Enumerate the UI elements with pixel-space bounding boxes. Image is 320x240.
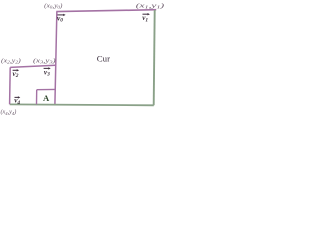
wire: A-box left edge bbox=[36, 90, 38, 105]
vector v3 arrow bar bbox=[44, 67, 49, 69]
svg-text:v3: v3 bbox=[44, 68, 50, 77]
wire: left vertical edge from (x0,y0) down bbox=[55, 12, 57, 106]
vector v1 arrow bar bbox=[143, 13, 148, 15]
wire: right vertical edge from (x1,y1) down bbox=[154, 10, 155, 105]
wire: small left vertical edge (x2,y2)-(x4,y4) bbox=[9, 67, 12, 104]
wire: bottom edge bbox=[10, 103, 154, 106]
svg-text:(x1,y1): (x1,y1) bbox=[136, 2, 164, 9]
svg-text:v0: v0 bbox=[57, 14, 63, 23]
svg-text:(x0,y0): (x0,y0) bbox=[44, 2, 62, 9]
svg-text:(x3,y3): (x3,y3) bbox=[33, 57, 56, 64]
svg-text:A: A bbox=[43, 93, 50, 103]
wire: A-box top edge bbox=[37, 88, 55, 90]
svg-text:(x2,y2): (x2,y2) bbox=[1, 57, 21, 64]
svg-text:(x4,y4): (x4,y4) bbox=[1, 109, 17, 116]
wire: top edge of outline (x0,y0)-(x1,y1) bbox=[56, 10, 156, 12]
svg-text:v2: v2 bbox=[13, 70, 19, 79]
vector v2 arrow bar bbox=[13, 69, 17, 71]
svg-text:v4: v4 bbox=[14, 97, 20, 106]
vector v4 arrow bar bbox=[15, 96, 19, 98]
svg-text:v1: v1 bbox=[142, 14, 148, 23]
wire: middle horizontal edge (x2,y2)-(x3,y3) bbox=[10, 65, 55, 67]
vector v0 arrow bar bbox=[58, 14, 64, 16]
svg-text:Cur: Cur bbox=[97, 53, 110, 63]
